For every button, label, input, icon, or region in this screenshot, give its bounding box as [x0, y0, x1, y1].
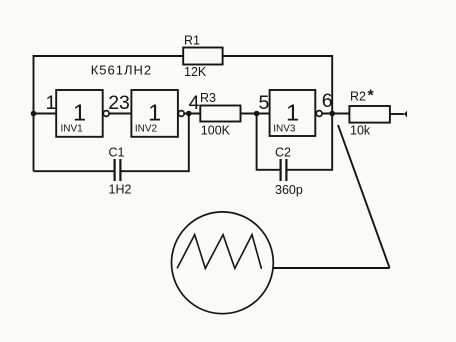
svg-text:1: 1	[46, 92, 57, 114]
node pin1 junction	[31, 111, 37, 117]
svg-text:*: *	[368, 88, 375, 105]
wire left vertical to C1	[33, 114, 35, 172]
svg-text:C1: C1	[109, 146, 125, 160]
svg-text:INV2: INV2	[135, 124, 158, 135]
svg-text:R1: R1	[184, 34, 200, 48]
svg-text:6: 6	[322, 90, 333, 112]
node pin5 junction	[254, 111, 260, 117]
wire node1 to INV1 input	[34, 113, 57, 115]
svg-text:К561ЛН2: К561ЛН2	[91, 63, 152, 78]
svg-text:1: 1	[148, 99, 161, 125]
svg-text:R3: R3	[200, 91, 216, 105]
svg-text:1Н2: 1Н2	[109, 182, 132, 196]
svg-text:4: 4	[189, 92, 200, 114]
svg-text:INV1: INV1	[61, 124, 84, 135]
resistor R3	[200, 91, 241, 138]
wire generator output	[273, 267, 389, 269]
svg-text:5: 5	[259, 92, 270, 114]
wire R2 to output terminal	[390, 113, 404, 115]
inverter U1 INV1	[56, 90, 109, 137]
svg-text:C2: C2	[275, 146, 291, 160]
capacitor C2	[257, 114, 303, 198]
wire top feedback right segment	[223, 56, 333, 114]
wire INV3 out to R2	[322, 113, 350, 115]
wire top feedback left segment	[34, 56, 184, 114]
inverter U1 INV2	[131, 90, 184, 137]
node pin6 junction	[329, 111, 335, 117]
node pin4 junction	[186, 111, 192, 117]
wire INV1 out to INV2 in	[109, 113, 132, 115]
svg-text:100K: 100K	[201, 123, 231, 137]
svg-text:23: 23	[108, 92, 130, 114]
generator circle G1	[172, 212, 274, 314]
svg-text:INV3: INV3	[273, 124, 296, 135]
wire R3 to INV3 in	[241, 113, 270, 115]
svg-text:1: 1	[286, 99, 299, 125]
svg-text:12K: 12K	[184, 65, 207, 79]
capacitor C1	[34, 146, 132, 197]
wire C1 to node4	[120, 114, 188, 172]
svg-text:10k: 10k	[350, 124, 371, 138]
wire C2 to node6	[286, 114, 332, 170]
output terminal	[404, 111, 407, 118]
svg-text:360p: 360p	[275, 183, 303, 197]
svg-text:R2: R2	[350, 90, 366, 104]
inverter U1 INV3	[270, 90, 323, 136]
wire INV2 out to R3	[184, 113, 200, 115]
svg-text:1: 1	[73, 99, 86, 125]
resistor R2	[349, 88, 390, 138]
sawtooth waveform	[177, 235, 261, 269]
resistor R1	[183, 34, 222, 80]
wire diagonal to node6	[338, 125, 390, 268]
